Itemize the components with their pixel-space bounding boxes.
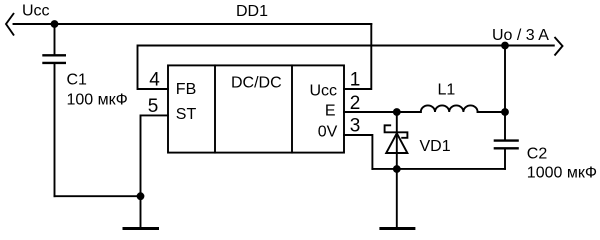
- junction: diode anode / bottom rail: [393, 165, 401, 173]
- diode VD1 triangle (apex up): [386, 133, 407, 153]
- output arrow (Uo, pointing right): [555, 37, 563, 56]
- svg-text:Uo / 3 A: Uo / 3 A: [492, 27, 549, 44]
- wire: Ucc input line: [14, 23, 372, 25]
- svg-text:Ucc: Ucc: [309, 82, 337, 99]
- svg-text:1000 мкФ: 1000 мкФ: [527, 165, 597, 182]
- wire: bottom-right horizontal: [372, 168, 505, 170]
- svg-text:ST: ST: [176, 106, 197, 123]
- diode VD1 vertical lead: [396, 112, 398, 169]
- junction: L1 / C2 / output: [501, 108, 509, 116]
- svg-text:4: 4: [149, 70, 160, 91]
- inductor L1 (4 humps): [421, 105, 478, 112]
- ground 1 bar: [124, 227, 158, 230]
- wire: bottom-left horizontal: [55, 195, 141, 197]
- svg-text:L1: L1: [438, 81, 456, 98]
- capacitor C1 plates: [44, 54, 65, 56]
- svg-text:VD1: VD1: [420, 138, 451, 155]
- junction: Ucc / C1 node: [51, 20, 59, 28]
- svg-text:0V: 0V: [318, 124, 338, 141]
- diode VD1 cathode bar with schottky hooks: [385, 125, 408, 138]
- ground 2 stem: [396, 169, 398, 227]
- capacitor C2 plates: [495, 139, 518, 141]
- ground 2 bar: [381, 227, 414, 230]
- junction: output node on feedback line: [501, 42, 509, 50]
- wire: drop from Ucc line to pin 1: [344, 24, 371, 89]
- svg-text:DD1: DD1: [236, 3, 268, 20]
- wire: C2 bottom stub: [504, 149, 506, 169]
- svg-text:DC/DC: DC/DC: [231, 74, 282, 91]
- junction: switch node (pin2/L1/VD1): [393, 108, 401, 116]
- svg-text:5: 5: [148, 96, 159, 117]
- IC internal divider left: [214, 65, 216, 152]
- svg-text:C1: C1: [67, 71, 88, 88]
- wire: pin 2 (E) to L1: [344, 111, 421, 113]
- svg-text:2: 2: [350, 93, 361, 114]
- IC DD1 box: [168, 65, 344, 152]
- svg-text:E: E: [325, 102, 336, 119]
- svg-text:100 мкФ: 100 мкФ: [67, 91, 128, 108]
- wire: feedback line from FB to output: [138, 46, 554, 90]
- junction: ground rail left: [137, 192, 145, 200]
- input arrow (Ucc, pointing left): [6, 13, 14, 36]
- wire: pin 3 (0V) down to bottom rail: [344, 135, 372, 169]
- wire: ST (pin 5) to ground rail: [141, 115, 169, 196]
- svg-text:C2: C2: [527, 146, 548, 163]
- svg-text:3: 3: [350, 116, 361, 137]
- svg-text:1: 1: [350, 70, 361, 91]
- IC internal divider right: [291, 65, 293, 152]
- svg-text:FB: FB: [176, 81, 196, 98]
- wire: C1 branch lower: [54, 64, 56, 196]
- ground 1 stem: [140, 196, 142, 227]
- wire: C1 branch upper: [54, 24, 56, 54]
- svg-text:Ucc: Ucc: [22, 3, 50, 20]
- wire: output node vertical to C2: [504, 46, 506, 140]
- wire: L1 to output node: [478, 111, 505, 113]
